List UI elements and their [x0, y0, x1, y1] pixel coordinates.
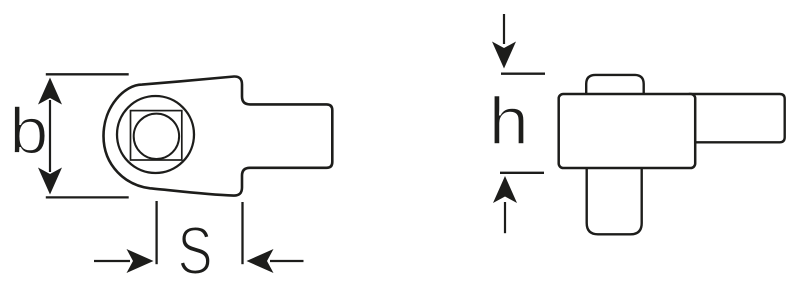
svg-text:S: S	[178, 213, 213, 285]
svg-text:b: b	[9, 96, 48, 168]
svg-text:h: h	[489, 83, 529, 158]
